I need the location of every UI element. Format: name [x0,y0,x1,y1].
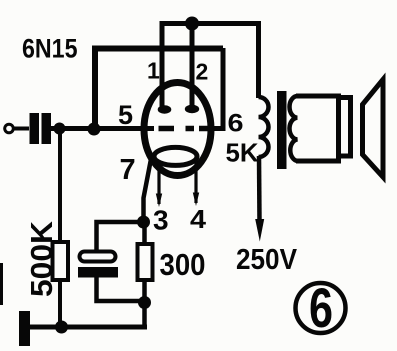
plate terminal pin 2 [185,105,199,113]
node junction dot R2 C2 bottom [138,296,151,309]
resistor R1 500K lead top [58,131,62,244]
node junction dot to R1 [54,123,66,135]
svg-text:5K: 5K [226,138,259,168]
svg-text:500K: 500K [24,220,59,297]
resistor R1 500K lead bottom [58,280,62,327]
svg-text:2: 2 [196,59,209,85]
transformer T1 primary winding [259,97,269,157]
node junction dot plate rail [185,17,199,31]
wire input to C1 [13,127,29,131]
wire cathode junction to C2 [97,222,144,252]
node junction dot R1 bottom [55,321,68,334]
node cathode junction dot [137,216,150,229]
plate terminal pin 1 [158,105,172,113]
transformer T1 core [277,91,287,169]
transformer T1 secondary winding [290,96,298,161]
heater pin 4 arrowhead [193,193,199,207]
wire grid link riser and top run [95,49,223,132]
capacitor C2 bottom plate [78,267,118,278]
svg-text:6: 6 [228,110,244,138]
wire secondary top to speaker [296,94,341,99]
ground bus wire [25,325,147,330]
wire C2 to ground bus [97,276,146,301]
resistor R2 300 body [138,244,153,280]
scan artifact left edge [0,263,3,305]
ground bar [19,311,30,346]
wire C1 to grid pin 5 [51,126,154,131]
svg-text:3: 3 [153,205,169,236]
wire primary bottom to supply [257,156,262,222]
svg-text:1: 1 [147,58,160,84]
grid dashes [159,126,213,132]
resistor R2 300 lead top [142,222,147,246]
wire plate pin 2 drop [190,24,195,107]
svg-text:4: 4 [190,204,207,234]
resistor R2 300 lead bottom [142,280,147,303]
speaker LS1 frame [339,98,351,157]
wire plate pin 1 riser [162,24,194,109]
heater pin 4 lead [194,158,197,203]
tube V1 envelope [144,83,211,176]
wire junction to ground bus [142,303,147,328]
svg-text:6N15: 6N15 [22,34,78,64]
heater pin 3 lead [157,165,160,204]
figure number badge circle [296,283,346,333]
input terminal J1 [5,124,14,133]
wire B+ rail to transformer primary [190,24,259,99]
wire down to grid pin 6 [209,48,223,129]
speaker LS1 cone [363,80,384,178]
capacitor C1 input coupling [30,113,52,144]
heater pin 3 arrowhead [156,194,162,208]
svg-text:300: 300 [160,247,206,282]
svg-text:5: 5 [118,100,133,130]
svg-text:7: 7 [120,154,136,186]
node junction dot to grid link [88,123,101,136]
wire cathode pin 7 [144,159,152,226]
resistor R1 500K body [53,242,69,280]
svg-text:6: 6 [309,276,333,339]
wire secondary bottom to speaker [296,159,341,164]
capacitor C2 top plate [80,252,116,262]
cathode K [154,147,197,165]
svg-text:250V: 250V [236,244,298,276]
arrowhead 250V supply [255,219,264,242]
